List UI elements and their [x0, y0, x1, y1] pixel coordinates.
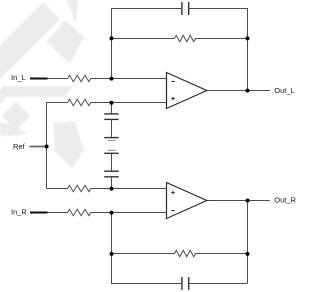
svg-text:In_L: In_L — [11, 73, 26, 82]
node fbR-left — [110, 252, 114, 256]
wire right vertical top — [247, 8, 249, 91]
node inR — [110, 211, 114, 215]
svg-text:In_R: In_R — [11, 208, 27, 217]
wire left vertical bottom — [111, 213, 113, 284]
pin In_L — [30, 77, 48, 79]
wire cap chain top — [111, 103, 113, 114]
node ref — [45, 145, 49, 149]
node inL — [110, 77, 114, 81]
wire top cap line right — [189, 8, 247, 10]
wire bottom cap line left — [111, 283, 181, 285]
wire plus_R line — [47, 188, 68, 190]
wire cap chain to plus_R — [111, 177, 113, 189]
resistor R_in_L — [68, 75, 167, 81]
wire bottom cap line right — [189, 283, 247, 285]
resistor R_fb_R — [111, 250, 248, 256]
node plusR — [110, 187, 114, 191]
capacitor C_plus_L — [104, 114, 119, 120]
wire right vertical bottom — [247, 201, 249, 284]
wire op1 output — [207, 90, 270, 92]
ground GND_L — [104, 137, 118, 139]
resistor R_in_R — [68, 209, 167, 215]
resistor R_plus_R — [68, 185, 167, 191]
node plusL — [110, 101, 114, 105]
wire left mid vertical — [46, 103, 48, 189]
capacitor C_plus_R — [104, 171, 119, 177]
node fbR-right — [246, 252, 250, 256]
node dots — [45, 36, 250, 256]
node fbL-right — [246, 36, 250, 40]
wire cap chain bottom-up — [111, 153, 113, 171]
wire In_R lead — [46, 212, 68, 214]
svg-text:Ref: Ref — [13, 142, 26, 151]
node outR — [246, 199, 250, 203]
wire op2 output — [207, 200, 270, 202]
capacitor C_fb_R — [182, 277, 189, 290]
op-amp U2 — [167, 183, 207, 219]
wire left vertical top — [111, 8, 113, 79]
svg-text:Out_R: Out_R — [274, 196, 296, 205]
resistor R_plus_L — [68, 99, 167, 105]
resistor R_fb_L — [111, 35, 248, 41]
pin In_R — [30, 211, 48, 213]
wire plus_L line — [47, 102, 68, 104]
wire In_L lead — [46, 78, 68, 80]
node fbL-left — [110, 36, 114, 40]
capacitor C_fb_L — [182, 2, 189, 15]
op-amp U1 — [167, 73, 207, 109]
wire Ref lead — [30, 146, 47, 148]
wire top cap line left — [111, 8, 181, 10]
wire cap chain mid — [111, 120, 113, 138]
node outL — [246, 89, 250, 93]
svg-text:Out_L: Out_L — [274, 86, 294, 95]
ground GND_R — [108, 149, 116, 151]
